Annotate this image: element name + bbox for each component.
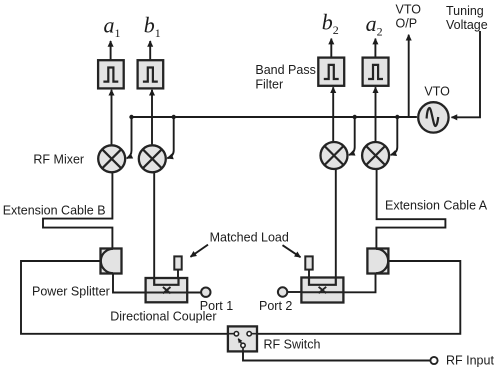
- directional coupler 1: [146, 278, 188, 302]
- wire mixer b1 to filter b1: [151, 90, 153, 145]
- svg-text:Filter: Filter: [255, 78, 283, 92]
- svg-text:a1: a1: [104, 13, 121, 41]
- svg-text:b2: b2: [322, 10, 339, 37]
- wire coupler 1 to Port 1: [146, 292, 201, 294]
- wire mixer a1 to filter a1: [111, 90, 113, 145]
- svg-text:Extension Cable B: Extension Cable B: [3, 203, 106, 217]
- band pass filter box b2: [318, 58, 344, 86]
- wire splitter 1 left to RF switch: [21, 261, 228, 334]
- wire LO drop to mixer a2: [391, 117, 398, 155]
- junction node dot 4: [395, 115, 399, 119]
- wire extension cable B: [43, 173, 112, 249]
- wire mixer b1 to coupler 1: [153, 173, 155, 286]
- wire LO drop to mixer a1: [127, 117, 132, 158]
- wire a1 filter to label arrow: [110, 41, 112, 60]
- svg-text:Extension Cable A: Extension Cable A: [385, 198, 488, 212]
- power splitter 1: [101, 249, 122, 274]
- junction node dot 2: [172, 115, 176, 119]
- wire b1 filter to label arrow: [149, 41, 151, 60]
- junction node dot 1: [129, 115, 133, 119]
- wire splitter 2 right to RF switch: [257, 261, 460, 334]
- svg-text:Port 1: Port 1: [200, 299, 233, 313]
- wire b2 filter to label arrow: [330, 39, 332, 58]
- wire mixer b2 to coupler 2: [335, 169, 337, 285]
- svg-text:Band Pass: Band Pass: [255, 63, 315, 77]
- matched load pointer arrow right: [283, 245, 301, 257]
- band pass filter box b1: [138, 60, 164, 88]
- RF mixer b1: [139, 145, 166, 172]
- VTO oscillator U1: [418, 102, 448, 132]
- RF mixer a1: [98, 145, 125, 172]
- directional coupler 2: [301, 278, 343, 303]
- RF mixer b2: [321, 142, 348, 169]
- RF mixer a2: [362, 142, 389, 169]
- svg-text:a2: a2: [366, 11, 383, 39]
- wire tuning voltage to VTO: [452, 31, 481, 117]
- wire VTO O/P output: [408, 35, 410, 117]
- wire splitter 1 bottom to coupler 1: [113, 274, 187, 293]
- svg-text:Power Splitter: Power Splitter: [32, 285, 110, 299]
- wire mixer a2 to filter a2: [375, 87, 377, 141]
- wire extension cable A: [376, 170, 445, 249]
- Port 1 connector circle: [201, 288, 210, 297]
- wire LO drop to mixer b2: [349, 117, 355, 155]
- svg-text:O/P: O/P: [396, 17, 418, 31]
- svg-text:Tuning: Tuning: [446, 4, 484, 18]
- wire LO distribution line: [132, 116, 417, 118]
- wire a2 filter to label arrow: [374, 39, 376, 58]
- matched load pointer arrow left: [191, 245, 209, 257]
- band pass filter box a1: [98, 60, 124, 88]
- svg-text:Voltage: Voltage: [446, 18, 488, 32]
- matched load 1: [174, 256, 181, 269]
- RF switch S1: [228, 326, 257, 352]
- svg-text:RF Switch: RF Switch: [264, 338, 321, 352]
- wire mixer b2 to filter b2: [332, 87, 334, 141]
- svg-text:RF Mixer: RF Mixer: [33, 153, 84, 167]
- svg-text:b1: b1: [144, 12, 161, 40]
- wire matched load 1 to coupler 1: [177, 270, 179, 278]
- Port 2 connector circle: [278, 287, 287, 296]
- RF input connector circle: [430, 357, 437, 364]
- power splitter 2: [367, 249, 388, 274]
- wire matched load 2 to coupler 2: [308, 270, 310, 278]
- wire LO drop to mixer b1: [167, 117, 173, 158]
- wire coupler 2 to splitter 2: [301, 274, 375, 293]
- svg-text:Port 2: Port 2: [259, 299, 292, 313]
- wire RF switch to RF input: [243, 351, 430, 360]
- junction node dot 3: [353, 115, 357, 119]
- band pass filter box a2: [363, 58, 389, 86]
- svg-text:VTO: VTO: [424, 85, 450, 99]
- matched load 2: [305, 256, 312, 269]
- svg-text:VTO: VTO: [396, 3, 422, 17]
- wire Port 2 to coupler 2: [287, 291, 301, 293]
- svg-text:RF Input: RF Input: [446, 353, 494, 367]
- svg-text:Matched Load: Matched Load: [210, 231, 289, 245]
